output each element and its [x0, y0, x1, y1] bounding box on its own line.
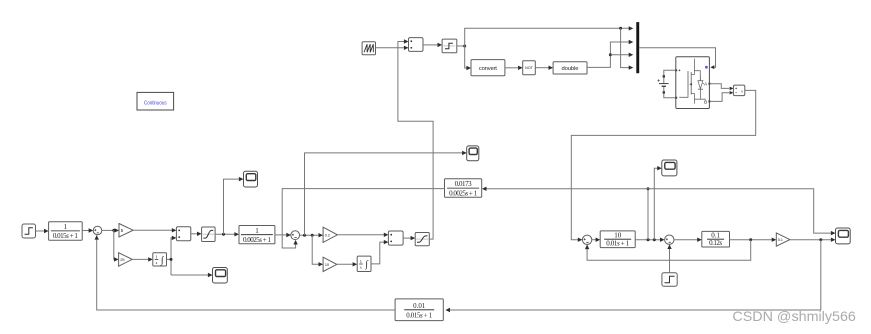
wire current to scope4 — [654, 168, 657, 240]
svg-text:CSDN @shmily566: CSDN @shmily566 — [732, 309, 856, 324]
junction integrator output — [170, 258, 173, 261]
wire convert to NOT — [505, 67, 519, 69]
svg-text:s: s — [360, 265, 362, 270]
wire speed sum output — [102, 229, 115, 231]
svg-text:10: 10 — [614, 231, 622, 239]
wire add to ACR saturation — [403, 237, 411, 239]
scope (current error) — [467, 146, 479, 161]
wire double to mux in2 — [587, 42, 629, 67]
wire filter to speed sum — [82, 230, 89, 232]
transfer function 1/(0.015s+1) (reference filter) — [49, 222, 83, 241]
svg-text:0.015s + 1: 0.015s + 1 — [53, 232, 79, 240]
powergui Continuous block — [137, 92, 174, 110]
wire current up to feedback line — [647, 189, 649, 240]
mux (4 inputs) — [636, 22, 639, 73]
svg-text:NOT: NOT — [525, 66, 534, 70]
wire to scope2 (current error) — [305, 153, 463, 235]
wire speed feedback bottom — [450, 240, 821, 310]
wire dc- to bridge — [664, 93, 675, 98]
wire P gain to add — [133, 229, 172, 231]
wire PWM to mux in1 — [465, 28, 629, 46]
wire integrator out — [167, 258, 172, 260]
svg-text:0.0025s + 1: 0.0025s + 1 — [243, 236, 272, 244]
step block (load disturbance) — [662, 273, 677, 286]
wire speed feedback to speed sum — [97, 239, 395, 310]
wire to mechanical TF — [674, 239, 698, 241]
junction PWM signal — [463, 45, 466, 48]
scope (speed and current) — [836, 228, 851, 244]
wire NOT to double — [535, 67, 549, 69]
add block (ASR PI sum) — [176, 227, 190, 241]
transfer function 0.01/(0.015s+1) (speed feedback) — [395, 299, 443, 321]
sum (current error) — [291, 231, 300, 240]
svg-text:v: v — [741, 89, 743, 93]
bridge gate port g (blue) — [705, 66, 708, 69]
wire load step to sum — [669, 249, 671, 273]
junction feedback line — [647, 187, 650, 190]
transfer function 0.1/0.12s (mechanical) — [702, 231, 730, 247]
wire integrator to add in2 — [171, 238, 172, 275]
transfer function 0.0173/(0.0025s+1) (current feedback) — [445, 179, 482, 198]
wire ACR output up to PWM comparator — [398, 42, 433, 240]
wire current to right scope in1 — [648, 189, 831, 233]
wire ACR P to add — [337, 234, 384, 236]
step block Step (speed reference) — [22, 224, 36, 238]
gain 10 (ACR integral) — [323, 257, 337, 271]
svg-text:0.0025s + 1: 0.0025s + 1 — [449, 189, 478, 197]
svg-text:Continuous: Continuous — [144, 100, 167, 106]
sum (speed error) — [93, 226, 102, 235]
junction EMF feedback — [749, 238, 752, 241]
wire to scope3 — [171, 274, 208, 276]
svg-text:0.01s + 1: 0.01s + 1 — [606, 240, 630, 248]
junction PWM to in4 — [619, 27, 622, 30]
svg-text:1: 1 — [64, 223, 68, 231]
wire PWM to mux in4 — [621, 28, 630, 67]
wire relay output — [457, 45, 465, 47]
wire current to feedback filter — [486, 188, 648, 190]
integrator 1/s (ASR) — [153, 253, 167, 266]
svg-text:0.0173: 0.0173 — [455, 180, 473, 188]
saturation (ASR limit) — [202, 227, 216, 242]
wire add to saturation — [191, 233, 198, 235]
saturation (ACR limit) — [415, 233, 429, 246]
wire dc+ to bridge — [664, 70, 675, 76]
junction current to scope — [653, 238, 656, 241]
wire comparator to relay — [423, 44, 438, 46]
dc voltage source — [657, 70, 675, 97]
wire bridge B to voltmeter — [710, 93, 729, 102]
wire armature current — [635, 239, 660, 241]
wire PWM down to convert — [465, 46, 467, 68]
scope (armature current) — [662, 160, 677, 176]
svg-text:0.2: 0.2 — [325, 233, 330, 237]
wire bridge A to voltmeter — [710, 84, 729, 89]
junction current to feedback — [647, 238, 650, 241]
sum (current minus load) — [665, 235, 674, 244]
junction to ACR integral path — [311, 234, 314, 237]
scope (ASR integrator) — [213, 268, 228, 284]
repeating sequence (sawtooth carrier) — [362, 42, 375, 55]
bridge left port marks — [679, 69, 681, 71]
gain 5.1 (speed scaling) — [776, 233, 790, 246]
wire current sum out — [300, 234, 319, 236]
voltage measurement block — [733, 85, 744, 96]
transfer function 10/(0.01s+1) (armature) — [600, 231, 635, 248]
gain 25 (ASR integral) — [119, 253, 133, 267]
wire ACR integrator to add in2 — [371, 242, 384, 264]
wire to armature TF — [592, 239, 596, 241]
wire ACR I to integrator — [337, 263, 353, 265]
svg-text:1: 1 — [255, 227, 259, 235]
wire mux to bridge gate — [639, 48, 715, 67]
svg-text:5: 5 — [121, 228, 124, 233]
wire current feedback to current sum — [282, 189, 444, 248]
svg-text:10: 10 — [325, 262, 330, 267]
wire to current sum — [275, 234, 287, 236]
data type conversion block convert — [471, 60, 505, 76]
svg-text:0.01: 0.01 — [413, 303, 426, 310]
relay block — [442, 39, 457, 53]
svg-text:double: double — [562, 66, 579, 72]
wire sawtooth to comparator — [376, 47, 405, 49]
mosfet bridge block — [675, 57, 710, 109]
junction to error scope — [303, 234, 306, 237]
wire EMF feedback to armature sum — [587, 240, 751, 261]
data type conversion block double — [553, 62, 587, 74]
integrator 1/s (ACR) — [357, 256, 371, 271]
svg-text:25: 25 — [120, 257, 125, 262]
scope (ASR output) — [244, 171, 258, 187]
svg-text:convert: convert — [479, 66, 497, 72]
sum (armature voltage minus EMF) — [582, 235, 591, 244]
svg-text:5.1: 5.1 — [778, 238, 783, 242]
gain 5 (ASR proportional) — [119, 224, 133, 238]
wire to gain 10 — [312, 235, 319, 264]
relational operator (PWM comparator) — [409, 38, 424, 52]
junction inverted PWM — [609, 53, 612, 56]
junction ASR output — [222, 233, 225, 236]
wire I gain to integrator — [132, 258, 148, 260]
svg-text:0.015s + 1: 0.015s + 1 — [406, 312, 433, 319]
wire branch to integral gain — [113, 230, 116, 259]
wire Step to ASR filter — [36, 230, 45, 232]
add block (ACR PI sum) — [388, 231, 403, 245]
junction on speed error — [112, 229, 115, 232]
svg-text:B: B — [704, 100, 707, 105]
transfer function 1/(0.0025s+1) — [239, 226, 275, 244]
wire ASR out to current filter — [215, 233, 235, 235]
logical operator NOT — [523, 61, 536, 75]
junction speed feedback — [819, 238, 822, 241]
svg-text:0.12s: 0.12s — [709, 239, 722, 247]
wire speed to gain — [730, 239, 773, 241]
wire speed to right scope — [790, 239, 831, 241]
svg-text:1: 1 — [360, 259, 362, 264]
svg-text:1: 1 — [155, 254, 157, 259]
wire measured voltage to armature sum — [571, 90, 755, 239]
wire to mux in3 — [610, 54, 629, 56]
svg-text:s: s — [156, 260, 158, 265]
wire to scope1 — [224, 179, 240, 234]
gain 0.2 (ACR proportional) — [323, 227, 337, 242]
